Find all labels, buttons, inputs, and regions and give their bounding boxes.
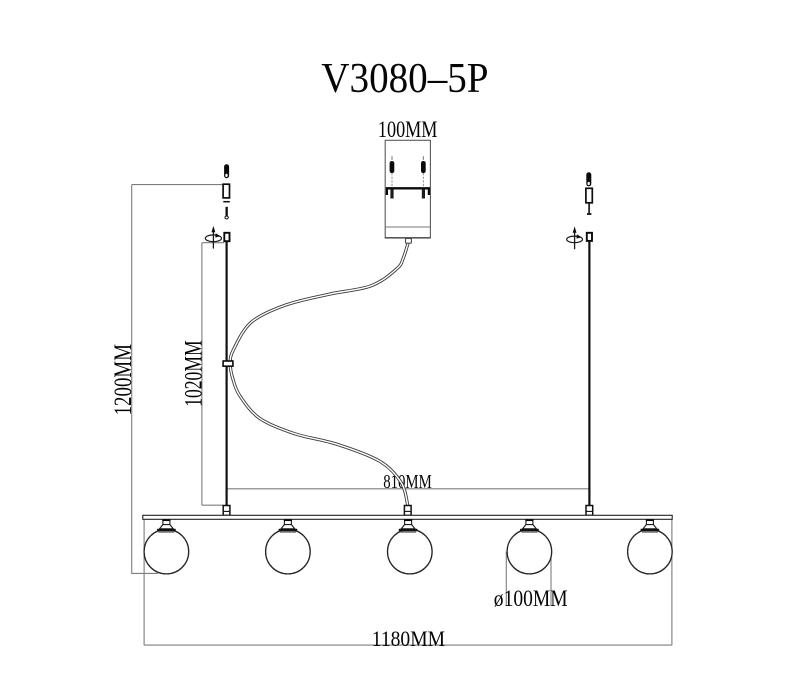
lamp 2 fitter — [279, 520, 298, 532]
dimension label 1180MM — [372, 626, 445, 651]
left suspension rod — [226, 241, 228, 505]
svg-text:1200MM: 1200MM — [109, 344, 137, 416]
right rod bottom connector — [586, 506, 593, 516]
right hanger ball stud — [586, 172, 591, 186]
right rod top fitting — [587, 233, 592, 241]
lamp 5 fitter — [641, 520, 660, 532]
lamp 3 fitter — [399, 520, 418, 532]
canopy dimension label 100MM — [378, 118, 438, 142]
dimension extension lines for globe diameter — [506, 552, 551, 606]
dimension 1200MM vertical line — [131, 185, 223, 574]
right swivel rotation symbol — [567, 226, 583, 249]
left rod cable collar — [223, 361, 233, 366]
dimension label 810MM — [383, 470, 432, 493]
left swivel rotation symbol — [205, 226, 221, 249]
mounting screw left — [390, 156, 395, 198]
left hanger pin — [225, 207, 228, 219]
lamp 4 glass globe — [507, 529, 552, 574]
dimension 1180MM bottom line — [144, 519, 672, 645]
left hanger clip dash — [223, 201, 230, 203]
title label V3080-5P — [321, 55, 488, 102]
power cable S-curve — [230, 243, 408, 505]
horizontal fixture bar — [143, 515, 672, 519]
canopy body — [385, 140, 430, 238]
left hanger ceiling cup — [223, 184, 229, 198]
dimension label 1200MM — [109, 344, 137, 416]
svg-text:1020MM: 1020MM — [179, 340, 207, 406]
lamp 2 glass globe — [266, 529, 311, 574]
mounting bracket — [387, 188, 429, 195]
svg-text:100MM: 100MM — [378, 118, 438, 142]
right suspension rod — [588, 241, 590, 506]
svg-text:ø100MM: ø100MM — [494, 586, 568, 612]
canopy cable nipple — [406, 238, 412, 243]
left rod top fitting — [224, 233, 229, 241]
mounting screw right — [421, 156, 426, 198]
lamp 5 glass globe — [628, 529, 673, 574]
lamp 3 glass globe — [388, 529, 433, 574]
cable bottom connector — [404, 506, 411, 516]
dimension label 1020MM — [179, 340, 207, 406]
left hanger ball stud — [224, 164, 229, 178]
svg-text:1180MM: 1180MM — [372, 626, 445, 651]
lamp 1 fitter — [157, 520, 176, 532]
svg-text:V3080–5P: V3080–5P — [321, 55, 488, 102]
svg-text:810MM: 810MM — [383, 470, 432, 493]
right hanger ceiling cup — [586, 188, 592, 203]
right hanger stem — [587, 203, 591, 214]
lamp 4 fitter — [520, 520, 539, 532]
left rod bottom connector — [223, 506, 230, 516]
canopy bottom plate line — [385, 226, 430, 228]
dimension label diameter 100MM — [494, 586, 568, 612]
dimension 810MM horizontal line — [227, 488, 589, 490]
dimension 1020MM vertical line — [202, 243, 224, 506]
lamp 1 glass globe — [144, 529, 189, 574]
